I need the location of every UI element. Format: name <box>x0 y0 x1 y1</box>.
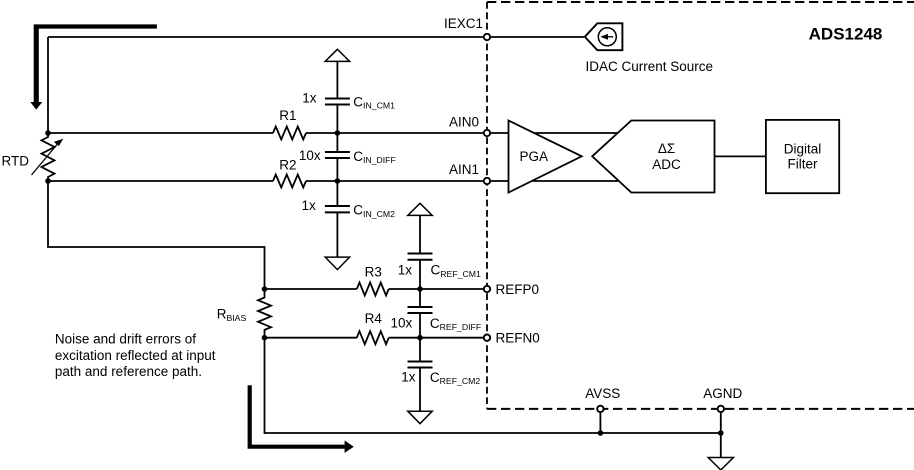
capacitor CIN_CM1 chain top link <box>336 61 338 98</box>
wire CREF chain: REFP0 node to DIFF to REFN0 node <box>419 289 421 338</box>
thick current-flow arrow (top left) <box>34 24 157 102</box>
ADS1248 dashed boundary bottom edge <box>487 408 914 410</box>
junction node CIN chain AIN0 <box>335 130 341 136</box>
svg-text:1x: 1x <box>398 263 413 278</box>
wire: ADC output to digital filter <box>715 155 766 157</box>
svg-text:CIN_CM1: CIN_CM1 <box>353 94 395 110</box>
svg-text:R3: R3 <box>365 265 382 280</box>
wire CREF chain: REFN0 node to CM2 to bottom triangle <box>419 338 421 412</box>
delta-sigma ADC block <box>592 121 714 193</box>
svg-text:CIN_CM2: CIN_CM2 <box>353 203 395 219</box>
junction node RBIAS top / REFP0 <box>262 286 268 292</box>
pin REFN0 terminal <box>484 335 490 341</box>
svg-text:IEXC1: IEXC1 <box>444 16 483 31</box>
supply triangle below CREF_CM2 (points down) <box>408 411 432 424</box>
svg-text:ADS1248: ADS1248 <box>809 25 883 44</box>
svg-text:CREF_CM2: CREF_CM2 <box>430 370 480 386</box>
thick current-flow arrow (bottom) <box>248 385 345 449</box>
junction node RTD top / AIN0 <box>45 130 51 136</box>
RTD variable resistor <box>42 133 55 181</box>
wire: REFN0 net <box>265 337 485 339</box>
svg-text:RBIAS: RBIAS <box>217 307 247 323</box>
wire: top net from RTD to IEXC1 <box>48 36 484 38</box>
svg-text:REFP0: REFP0 <box>496 282 540 297</box>
wire: IEXC1 to IDAC current source <box>490 36 584 38</box>
wire: RBIAS bottom to ground rail <box>265 338 721 433</box>
pin IEXC1 terminal <box>484 34 490 40</box>
svg-text:1x: 1x <box>401 370 416 385</box>
svg-text:Noise and drift errors of: Noise and drift errors of <box>55 332 196 347</box>
capacitor CREF_CM1 <box>408 254 433 260</box>
pin REFP0 terminal <box>484 286 490 292</box>
svg-text:Digital: Digital <box>784 142 822 157</box>
wire CIN chain: AIN0 node to CIN_DIFF to AIN1 node <box>336 133 338 181</box>
junction node RTD bottom / AIN1 <box>45 178 51 184</box>
pin AIN0 terminal <box>484 130 490 136</box>
svg-text:AIN1: AIN1 <box>449 162 479 177</box>
svg-text:AVSS: AVSS <box>585 386 620 401</box>
svg-text:IDAC Current Source: IDAC Current Source <box>586 59 714 74</box>
svg-text:1x: 1x <box>302 198 317 213</box>
wire CIN chain: AIN1 node to CM2 to bottom triangle <box>336 181 338 257</box>
svg-text:ΔΣ: ΔΣ <box>658 141 675 156</box>
ADS1248 dashed boundary top edge <box>487 1 914 3</box>
junction node AVSS rail <box>598 430 604 436</box>
svg-text:RTD: RTD <box>2 153 30 168</box>
junction node CREF chain REFN0 <box>417 335 423 341</box>
wire: AIN0 net (RTD top to R1, R1 to node, node to AIN0 pin) <box>48 132 484 134</box>
junction node AGND rail <box>718 430 724 436</box>
svg-text:R2: R2 <box>279 158 296 173</box>
svg-text:1x: 1x <box>302 91 317 106</box>
svg-text:AIN0: AIN0 <box>449 114 479 129</box>
junction node RBIAS bottom / REFN0 <box>262 335 268 341</box>
wire: REFP0 net <box>265 288 485 290</box>
wire CREF chain: CM1 to REFP0 node <box>419 260 421 289</box>
wire: AIN1 inside ADS1248 to PGA/ADC <box>490 180 618 182</box>
svg-text:excitation reflected at input: excitation reflected at input <box>55 348 216 363</box>
svg-text:CREF_DIFF: CREF_DIFF <box>430 316 481 332</box>
svg-text:10x: 10x <box>299 148 321 163</box>
IDAC current source symbol <box>585 23 623 50</box>
svg-text:R1: R1 <box>279 108 296 123</box>
wire: RTD bottom down and over to RBIAS top <box>48 181 265 289</box>
resistor R3 <box>357 283 389 296</box>
capacitor CIN_CM1 <box>325 99 350 105</box>
capacitor CREF_CM2 <box>408 362 433 368</box>
pin AGND terminal <box>718 406 724 412</box>
capacitor CIN_DIFF <box>325 152 350 158</box>
resistor R4 <box>357 331 389 344</box>
ground symbol below AGND <box>708 458 733 470</box>
svg-text:PGA: PGA <box>520 149 549 164</box>
ADS1248 dashed boundary left edge <box>486 2 488 409</box>
wire CIN chain: CM1 to AIN0 node <box>336 105 338 134</box>
pin AIN1 terminal <box>484 178 490 184</box>
junction node CREF chain REFP0 <box>417 286 423 292</box>
supply triangle below CIN_CM2 (points down) <box>325 257 349 270</box>
wire: AIN0 inside ADS1248 to PGA/ADC <box>490 132 618 134</box>
svg-text:AGND: AGND <box>703 386 742 401</box>
digital filter block <box>766 120 839 193</box>
supply triangle above CREF_CM1 <box>408 203 432 215</box>
capacitor CIN_CM2 <box>325 206 350 212</box>
wire: left column down to RTD top <box>47 37 49 133</box>
wire: AIN1 net (RTD bottom to R2, R2 to node, node to AIN1 pin) <box>48 180 484 182</box>
svg-text:CREF_CM1: CREF_CM1 <box>431 263 481 279</box>
junction node CIN chain AIN1 <box>335 178 341 184</box>
op-amp PGA U1 <box>509 121 582 193</box>
resistor R1 <box>273 127 306 140</box>
svg-text:CIN_DIFF: CIN_DIFF <box>353 149 396 165</box>
resistor R2 <box>273 175 306 188</box>
wire: AGND drop to rail and ground <box>720 412 722 458</box>
svg-text:10x: 10x <box>391 316 413 331</box>
svg-text:path and reference path.: path and reference path. <box>55 364 202 379</box>
wire CREF chain top link <box>419 215 421 253</box>
svg-text:R4: R4 <box>365 311 383 326</box>
RTD arrow <box>32 142 60 176</box>
svg-text:Filter: Filter <box>788 156 819 171</box>
svg-text:REFN0: REFN0 <box>496 330 540 345</box>
pin AVSS terminal <box>597 406 603 412</box>
capacitor CREF_DIFF <box>408 307 433 313</box>
wire: AVSS drop <box>599 412 601 433</box>
resistor RBIAS <box>258 289 271 338</box>
supply triangle above CIN_CM1 <box>325 49 349 61</box>
svg-text:ADC: ADC <box>652 157 681 172</box>
